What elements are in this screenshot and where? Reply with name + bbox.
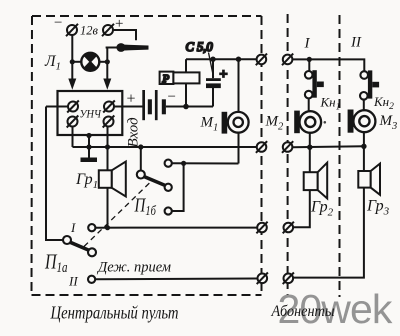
svg-text:Р: Р: [162, 73, 170, 85]
node Gr1 on line y227: [105, 225, 110, 230]
wire from minus terminal down to amplifier: [71, 35, 73, 80]
node on amplifier bottom edge: [86, 133, 91, 138]
svg-text:П1а: П1а: [44, 250, 67, 275]
svg-text:Л1: Л1: [44, 53, 61, 73]
button Kn2: [360, 70, 379, 99]
terminal out y147 left: [257, 142, 267, 152]
node y147 switch P1b column: [138, 144, 143, 149]
terminal y227 right: [284, 223, 294, 233]
node M2 junction y147: [307, 145, 312, 150]
wire tap from amplifier bottom to ground line: [88, 136, 90, 148]
svg-text:Вход: Вход: [126, 117, 142, 148]
wire lamp left link: [72, 61, 82, 63]
wire plus terminal to jack: [113, 30, 136, 40]
battery GB1: [142, 90, 166, 120]
wire plug stem down to amplifier: [106, 48, 108, 80]
wire P1b lower contact loop: [172, 163, 184, 211]
terminal in top-right y59: [283, 55, 293, 65]
terminal out top-left y59: [257, 55, 267, 65]
terminal y278 left: [258, 274, 268, 284]
wire Kn2 to mic M3: [363, 100, 365, 111]
svg-text:П1б: П1б: [134, 195, 157, 219]
node lamp right junction: [105, 59, 110, 64]
svg-text:−: −: [54, 15, 62, 31]
wire battery right to cap corner: [166, 106, 213, 108]
svg-text:II: II: [350, 35, 362, 51]
svg-text:Центральный пульт: Центральный пульт: [50, 303, 179, 323]
wire Kn1 to mic M2: [308, 98, 310, 111]
amplifier U1 box UNCh: [58, 91, 123, 135]
wire P1b upper contact to M1: [172, 162, 239, 164]
wire contact II line y279: [95, 278, 257, 281]
wire mic M1 bottom stem: [238, 133, 240, 164]
wire amplifier bottom left lead: [72, 124, 74, 147]
svg-text:+: +: [220, 68, 228, 83]
wire mic M1 top stem: [238, 59, 240, 112]
svg-text:I: I: [70, 220, 76, 235]
svg-text:УНЧ: УНЧ: [80, 107, 102, 121]
wire Gr3 top stem: [363, 146, 365, 171]
terminal y278 right: [284, 274, 294, 284]
arrow into amplifier left: [68, 79, 76, 90]
wire Kn1 stem: [308, 59, 310, 71]
lamp L1: [81, 53, 99, 71]
wire amplifier bottom right lead down to speaker Gr1: [107, 124, 109, 171]
node y147 ground tap: [86, 144, 91, 149]
svg-text:Гр3: Гр3: [366, 198, 390, 218]
svg-text:М2: М2: [265, 114, 285, 133]
node Kn1 tap: [307, 57, 312, 62]
wire amplifier right lead to battery: [112, 106, 143, 108]
button Kn1: [305, 70, 324, 98]
mechanical link dashed P1a-P1b: [84, 182, 151, 247]
svg-text:Гр1: Гр1: [75, 171, 98, 191]
node M3 junction y146: [361, 144, 366, 149]
wire subscriber line y147: [292, 145, 364, 148]
terminal plus 12v: [103, 25, 113, 35]
svg-text:+: +: [115, 16, 123, 32]
svg-text:12в: 12в: [80, 24, 99, 38]
capacitor C 5,0: [206, 53, 221, 89]
node mic M1 top: [236, 57, 241, 62]
svg-text:Гр2: Гр2: [310, 199, 334, 219]
wire Gr2 top stem: [309, 147, 311, 172]
wire amplifier left lead: [46, 106, 70, 108]
wire subscriber rail y59: [292, 59, 364, 71]
dashed separator subscribers left edge: [287, 14, 289, 296]
svg-text:Кн1: Кн1: [320, 95, 341, 113]
switch P1a: [63, 224, 96, 283]
node cap top: [210, 57, 215, 62]
switch P1b: [137, 160, 172, 215]
wire lamp right link: [99, 61, 108, 63]
terminal minus 12v: [67, 25, 77, 35]
wire plug left lead: [106, 47, 117, 49]
wire speaker Gr1 bottom down: [107, 188, 109, 228]
wire mic M2 bottom stem: [309, 133, 311, 147]
switch P1b common stem: [140, 147, 142, 171]
node y147 speaker column: [105, 144, 110, 149]
svg-text:Абоненты: Абоненты: [271, 303, 335, 320]
plug X1: [116, 43, 148, 52]
terminal y227 left: [257, 223, 267, 233]
terminal UNCh bottom-left: [68, 117, 78, 127]
svg-text:С 5,0: С 5,0: [186, 40, 214, 54]
terminal y147 right: [283, 142, 293, 152]
arrow into amplifier right: [103, 79, 111, 90]
relay R coil: [160, 59, 200, 106]
wire horizontal line y147 to terminal: [73, 146, 258, 148]
terminal UNCh bottom-right: [104, 117, 114, 127]
svg-text:−: −: [168, 89, 176, 105]
svg-text:М3: М3: [379, 113, 398, 132]
svg-text:II: II: [68, 274, 78, 289]
svg-text:Деж. прием: Деж. прием: [96, 260, 171, 276]
terminal UNCh top-right: [104, 102, 114, 112]
svg-text:I: I: [304, 36, 311, 52]
svg-text:М1: М1: [200, 115, 219, 134]
node lamp left junction: [70, 59, 75, 64]
speck: [324, 121, 327, 124]
wire Gr2 bottom to terminal: [293, 190, 310, 227]
node battery-relay junction: [183, 104, 189, 110]
microphone M1: [222, 112, 249, 134]
microphone M3: [348, 110, 376, 133]
terminal UNCh top-left: [68, 102, 78, 112]
wire mic M3 bottom stem: [363, 132, 365, 146]
svg-text:Кн2: Кн2: [373, 94, 394, 112]
svg-text:+: +: [127, 91, 136, 108]
microphone M2: [294, 111, 321, 134]
node P1b contacts tie: [181, 161, 186, 166]
speaker Gr3: [358, 164, 380, 195]
wire capacitor bottom stem: [212, 88, 214, 107]
ground: [81, 147, 98, 162]
speaker Gr2: [304, 163, 328, 199]
speaker Gr1: [99, 162, 126, 197]
wire Gr3 bottom to terminal: [293, 188, 364, 278]
wire left branch to P1a: [46, 107, 63, 241]
dashed separator between subscriber I and II: [339, 15, 341, 297]
wire top rail y59: [186, 58, 257, 60]
wire contact I line y227: [95, 227, 257, 229]
border central console dashed box: [32, 16, 262, 295]
